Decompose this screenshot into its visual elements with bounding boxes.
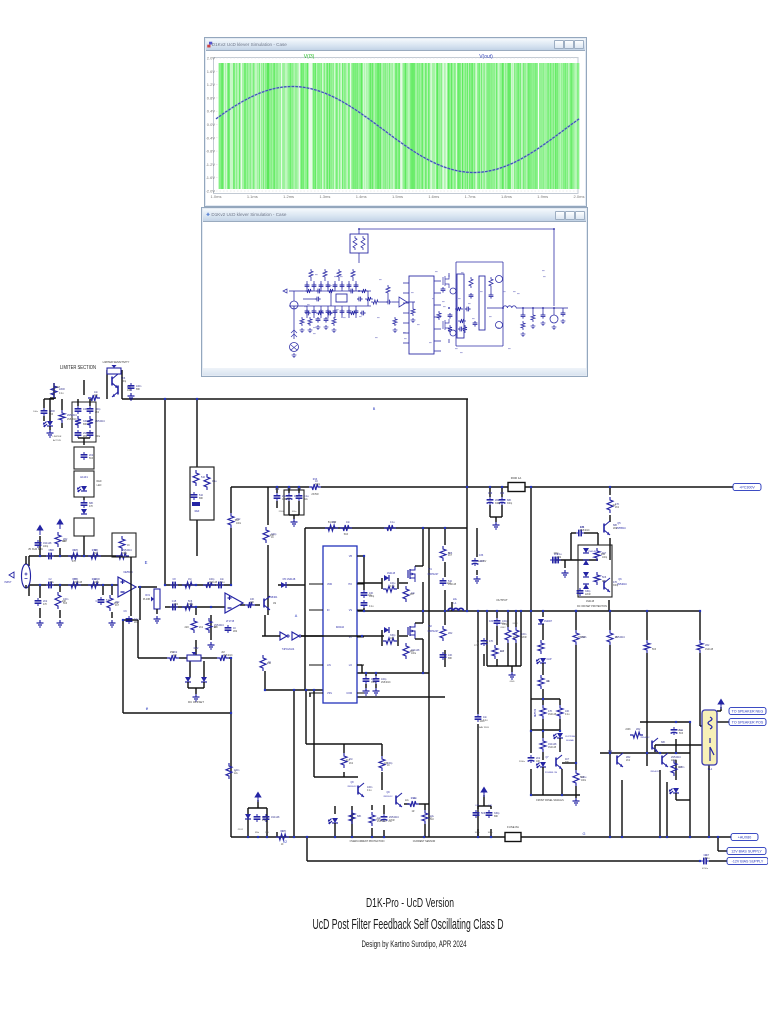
junction — [139, 586, 141, 588]
svg-text:2K2: 2K2 — [615, 507, 620, 509]
capacitor C34 — [496, 618, 498, 621]
junction — [609, 752, 611, 754]
wire — [640, 721, 690, 723]
svg-text:2K2: 2K2 — [536, 757, 541, 760]
junction — [257, 836, 259, 838]
junction — [293, 836, 295, 838]
svg-text:TO SPEAKER NEG: TO SPEAKER NEG — [732, 710, 764, 714]
svg-text:0.1u: 0.1u — [705, 858, 710, 860]
capacitor C28 — [89, 406, 91, 409]
resistor R69 — [349, 810, 355, 824]
wire — [313, 690, 315, 777]
svg-text:GND: GND — [510, 681, 515, 683]
resistor R61 — [540, 705, 546, 719]
wire — [179, 657, 187, 659]
svg-text:COM: COM — [346, 692, 352, 695]
junction — [666, 836, 668, 838]
wire — [496, 659, 498, 666]
mosfet M1 — [407, 570, 409, 578]
svg-text:22u: 22u — [282, 495, 287, 498]
wire — [266, 808, 268, 837]
junction — [466, 610, 468, 612]
relay contact — [710, 738, 714, 761]
pin LIN — [309, 664, 323, 666]
resistor R68 — [379, 756, 385, 771]
svg-text:2K/5W: 2K/5W — [311, 493, 319, 496]
svg-text:47K: 47K — [548, 710, 553, 713]
wire — [542, 731, 544, 738]
capacitor C18 — [298, 493, 300, 496]
wire — [675, 760, 677, 780]
wire — [130, 557, 132, 616]
wire — [278, 584, 300, 586]
capacitor C32 — [442, 652, 444, 655]
svg-text:1N4148: 1N4148 — [282, 499, 291, 501]
wire — [490, 516, 502, 518]
diode D10 — [81, 486, 87, 491]
wire — [530, 769, 532, 795]
capacitor C24 — [365, 676, 367, 679]
svg-text:0.1u: 0.1u — [134, 618, 139, 621]
wire — [230, 528, 232, 585]
wire — [43, 399, 45, 408]
ground — [109, 620, 116, 627]
wire — [304, 528, 306, 690]
svg-text:47K: 47K — [89, 506, 94, 508]
wire — [321, 486, 508, 488]
wire — [399, 582, 408, 584]
wire — [444, 562, 446, 577]
junction — [659, 752, 661, 754]
svg-text:0.1u: 0.1u — [220, 582, 225, 584]
wire — [343, 772, 345, 777]
wire — [363, 556, 365, 590]
wire — [699, 611, 701, 640]
svg-text:5K6: 5K6 — [652, 649, 657, 651]
svg-text:0.1u: 0.1u — [304, 495, 309, 498]
resistor R58 — [697, 640, 703, 653]
wire — [415, 622, 423, 624]
wire — [422, 582, 424, 611]
resistor R48 — [492, 645, 498, 659]
svg-text:220R: 220R — [389, 820, 395, 822]
wire — [301, 635, 325, 637]
svg-text:2K2: 2K2 — [349, 763, 354, 765]
svg-text:10K: 10K — [371, 678, 376, 681]
svg-text:4700u: 4700u — [702, 868, 709, 870]
wire — [575, 611, 577, 630]
diode D15 — [583, 572, 589, 577]
wire — [718, 850, 727, 852]
wire — [264, 671, 266, 690]
wire — [700, 725, 702, 727]
inverter A2 — [280, 632, 287, 640]
svg-text:2R2: 2R2 — [174, 604, 179, 606]
svg-text:2N5551C: 2N5551C — [616, 527, 626, 530]
svg-text:22u: 22u — [453, 598, 458, 601]
ground — [291, 519, 298, 526]
transistor Q7 — [555, 758, 557, 767]
svg-text:10n: 10n — [546, 680, 551, 683]
resistor R25 — [87, 416, 93, 428]
svg-text:2200: 2200 — [279, 511, 285, 513]
svg-text:1N4148: 1N4148 — [411, 649, 420, 652]
diode D11 — [185, 677, 191, 682]
junction — [59, 555, 61, 557]
wire — [257, 800, 259, 808]
resistor R54 — [573, 630, 579, 645]
wire — [422, 611, 424, 623]
wire — [382, 635, 384, 637]
svg-text:Design by Kartino Surodipo, AP: Design by Kartino Surodipo, APR 2024 — [362, 939, 467, 949]
wire — [415, 638, 423, 640]
junction — [361, 635, 363, 637]
wire — [575, 645, 577, 753]
wire — [248, 807, 267, 809]
wire — [564, 560, 566, 568]
sim schematic: gate driver IC — [409, 276, 434, 354]
ground — [193, 694, 200, 701]
svg-text:2R2: 2R2 — [115, 601, 120, 604]
junction — [477, 836, 479, 838]
wire — [520, 611, 522, 666]
wire — [709, 860, 727, 862]
svg-text:100n: 100n — [136, 385, 142, 388]
resistor R40 — [340, 525, 352, 531]
sim schematic: bias source — [293, 306, 295, 339]
svg-text:2R2: 2R2 — [83, 436, 88, 438]
resistor R33 — [260, 655, 266, 671]
wire — [357, 582, 382, 584]
junction — [363, 555, 365, 557]
svg-text:C8: C8 — [172, 578, 176, 581]
wire — [507, 611, 509, 627]
svg-text:68K: 68K — [199, 498, 204, 500]
svg-text:0.1u: 0.1u — [557, 553, 562, 556]
junction — [83, 555, 85, 557]
wire — [124, 619, 138, 621]
junction — [351, 836, 353, 838]
svg-text:2K2: 2K2 — [199, 627, 204, 629]
wire — [138, 657, 167, 659]
wire — [543, 698, 560, 700]
svg-text:V2: V2 — [283, 840, 287, 844]
svg-text:LO: LO — [349, 664, 352, 667]
resistor R26 — [51, 383, 57, 398]
junction — [486, 610, 488, 612]
junction — [501, 486, 503, 488]
wire — [276, 832, 278, 837]
junction — [507, 610, 509, 612]
svg-text:68K: 68K — [565, 762, 570, 764]
wire — [29, 584, 118, 586]
wire — [210, 615, 212, 640]
junction — [530, 610, 532, 612]
wire — [542, 624, 544, 640]
wire — [155, 586, 157, 588]
ground — [509, 672, 516, 679]
wire — [61, 399, 63, 410]
svg-text:1K: 1K — [387, 765, 390, 767]
resistor R2x — [59, 410, 65, 423]
transistor Q9 — [395, 796, 397, 805]
svg-text:68K: 68K — [661, 741, 666, 744]
svg-text:68K: 68K — [83, 424, 88, 426]
junction — [39, 555, 41, 557]
svg-text:C46: C46 — [488, 805, 493, 807]
resistor R29 — [182, 604, 195, 610]
svg-text:D5 1N4148: D5 1N4148 — [283, 578, 296, 581]
wire — [609, 515, 611, 522]
svg-text:510: 510 — [201, 476, 206, 479]
svg-text:VDD: VDD — [327, 583, 332, 586]
capacitor C6 — [37, 598, 39, 601]
capacitor C5 — [46, 555, 49, 557]
wire — [717, 837, 719, 851]
svg-text:100n: 100n — [234, 769, 240, 772]
wire — [267, 545, 269, 595]
wire — [381, 744, 383, 756]
svg-text:10n: 10n — [413, 797, 418, 800]
wire — [195, 640, 197, 656]
wire — [525, 486, 733, 488]
resistor R11 — [119, 536, 125, 551]
wire — [44, 398, 54, 400]
svg-text:+PC300V: +PC300V — [739, 486, 755, 490]
pin VS — [357, 609, 364, 611]
capacitor C27 — [77, 406, 79, 409]
capacitor C26 — [83, 452, 85, 455]
svg-text:BAV P620: BAV P620 — [479, 726, 490, 729]
svg-text:J5 XLR MIC: J5 XLR MIC — [28, 547, 43, 551]
svg-text:M2: M2 — [428, 625, 432, 628]
resistor R47 — [440, 626, 446, 641]
wire — [111, 612, 113, 618]
svg-text:CLIPPING: CLIPPING — [565, 736, 576, 738]
junction — [609, 486, 611, 488]
resistor R12 — [116, 553, 129, 559]
box — [72, 402, 96, 442]
capacitor C31 — [83, 500, 85, 503]
diode D9 limiter LED — [47, 421, 53, 426]
svg-text:C19: C19 — [488, 493, 493, 495]
svg-text:100: 100 — [265, 832, 269, 834]
junction — [313, 689, 315, 691]
wire — [531, 698, 543, 700]
RV2 dc offset — [187, 655, 201, 661]
svg-text:C2: C2 — [48, 578, 52, 581]
svg-text:2N5401C: 2N5401C — [580, 530, 590, 532]
resistor R16 — [191, 618, 197, 633]
svg-text:220R: 220R — [521, 637, 527, 639]
svg-text:5K6: 5K6 — [481, 812, 486, 815]
wire — [422, 528, 424, 566]
capacitor C13 — [216, 584, 219, 586]
svg-text:100p: 100p — [602, 557, 608, 559]
wire — [542, 699, 544, 705]
svg-text:510: 510 — [448, 580, 453, 583]
wire — [424, 804, 426, 810]
resistor R31 — [245, 602, 255, 608]
junction — [102, 584, 104, 586]
junction — [646, 610, 648, 612]
wire — [265, 689, 325, 691]
capacitor C16 — [276, 493, 278, 496]
wire — [575, 753, 577, 770]
svg-text:47K: 47K — [282, 830, 287, 833]
svg-text:OUTPUT: OUTPUT — [496, 598, 508, 602]
svg-text:330p: 330p — [83, 420, 89, 423]
diode D12 — [201, 677, 207, 682]
svg-text:330p: 330p — [494, 812, 500, 815]
svg-text:47K: 47K — [489, 640, 494, 643]
svg-text:2R2: 2R2 — [626, 756, 631, 759]
resistor R18 — [182, 582, 195, 588]
wire — [306, 743, 382, 745]
wire — [511, 666, 513, 672]
capacitor C4 — [37, 540, 39, 543]
wire — [570, 533, 572, 560]
resistor R35 — [217, 655, 229, 661]
wire — [340, 672, 429, 674]
svg-text:1R: 1R — [412, 811, 415, 813]
svg-text:51R: 51R — [344, 533, 349, 536]
svg-text:2N5401C: 2N5401C — [389, 816, 399, 819]
svg-text:e: e — [146, 706, 149, 711]
junction — [621, 836, 623, 838]
svg-text:2N5401C: 2N5401C — [122, 549, 132, 552]
speaker flag — [718, 700, 724, 710]
svg-text:5K6: 5K6 — [188, 600, 193, 603]
svg-text:4K7: 4K7 — [63, 541, 68, 543]
svg-text:LED: LED — [97, 484, 102, 487]
svg-text:10K: 10K — [94, 395, 99, 397]
wire — [165, 606, 225, 608]
resistor R55 — [607, 630, 613, 645]
wire — [305, 690, 307, 744]
wire — [49, 426, 51, 430]
svg-text:10n: 10n — [483, 716, 488, 719]
wire — [597, 533, 599, 545]
junction — [675, 721, 677, 723]
capacitor C27b — [77, 430, 79, 433]
svg-text:330p: 330p — [390, 634, 396, 637]
svg-text:100n: 100n — [236, 523, 242, 525]
wire — [83, 536, 85, 556]
svg-text:68K: 68K — [448, 658, 453, 660]
capacitor C37 — [550, 559, 553, 561]
ground — [474, 576, 481, 583]
svg-text:ACTIVE: ACTIVE — [53, 439, 61, 442]
svg-text:2N5401C: 2N5401C — [67, 414, 77, 417]
resistor R50 — [513, 627, 519, 643]
junction — [363, 610, 365, 612]
wire — [365, 684, 367, 688]
flag +PC300V — [733, 483, 761, 490]
capacitor C15 — [170, 606, 173, 608]
svg-text:68K: 68K — [136, 389, 141, 391]
svg-text:1N4148: 1N4148 — [209, 582, 218, 584]
wire — [195, 607, 197, 615]
svg-text:330p: 330p — [495, 503, 501, 505]
svg-text:LIMITER SENSITIVITY: LIMITER SENSITIVITY — [103, 360, 130, 364]
junction — [371, 836, 373, 838]
svg-text:5K6: 5K6 — [121, 377, 126, 380]
svg-text:68K: 68K — [494, 816, 499, 818]
svg-text:R5b: R5b — [255, 832, 260, 834]
capacitor C28b — [89, 430, 91, 433]
wire — [375, 673, 377, 676]
resistor R46 — [440, 546, 446, 561]
opto box U8 — [74, 518, 94, 536]
transistor Q10 — [111, 377, 113, 386]
wire — [314, 776, 358, 778]
wire — [230, 713, 232, 837]
svg-text:100n: 100n — [679, 766, 685, 769]
junction — [542, 610, 544, 612]
junction — [477, 610, 479, 612]
svg-text:1K: 1K — [315, 480, 318, 483]
wire — [501, 505, 503, 517]
wire — [102, 585, 104, 595]
wire — [39, 536, 41, 556]
svg-text:330p: 330p — [188, 604, 194, 606]
fuse F2 8A — [505, 833, 521, 842]
resistor R57 — [644, 640, 650, 653]
resistor R67 — [341, 753, 347, 768]
junction — [247, 836, 249, 838]
wire — [689, 722, 691, 837]
wire — [383, 830, 385, 837]
svg-text:4K7: 4K7 — [500, 650, 505, 653]
wire — [301, 635, 382, 637]
svg-text:FRONT PANEL SIGNALS: FRONT PANEL SIGNALS — [536, 799, 564, 802]
wire — [122, 620, 124, 713]
svg-text:ZD12: ZD12 — [238, 829, 244, 831]
svg-text:1u: 1u — [477, 641, 480, 643]
diode D8 — [384, 627, 389, 633]
svg-text:10K: 10K — [390, 638, 395, 640]
wire — [231, 486, 309, 488]
svg-text:B: B — [373, 407, 376, 411]
wire — [424, 824, 426, 837]
wire — [307, 860, 700, 862]
wire — [138, 586, 155, 588]
wire — [542, 689, 544, 692]
wire — [334, 831, 336, 837]
svg-text:22u: 22u — [50, 582, 55, 584]
svg-text:10K: 10K — [50, 549, 55, 552]
resistor R70 — [369, 812, 375, 826]
svg-text:4K7: 4K7 — [565, 758, 570, 761]
wire — [600, 752, 690, 754]
flag 12V BIAS SUPPLY — [727, 847, 766, 854]
wire — [106, 370, 108, 399]
svg-text:2N5401C: 2N5401C — [671, 756, 681, 759]
svg-text:220R: 220R — [94, 578, 100, 581]
wire — [381, 772, 383, 790]
wire — [267, 487, 269, 525]
svg-text:330p: 330p — [315, 484, 321, 486]
svg-text:Q9: Q9 — [386, 792, 390, 794]
wire — [352, 696, 445, 698]
wire — [288, 501, 290, 515]
svg-text:0.1u: 0.1u — [262, 820, 267, 822]
junction — [689, 836, 691, 838]
svg-text:1N4148: 1N4148 — [548, 743, 557, 746]
wire — [562, 762, 576, 764]
capacitor — [553, 559, 556, 561]
